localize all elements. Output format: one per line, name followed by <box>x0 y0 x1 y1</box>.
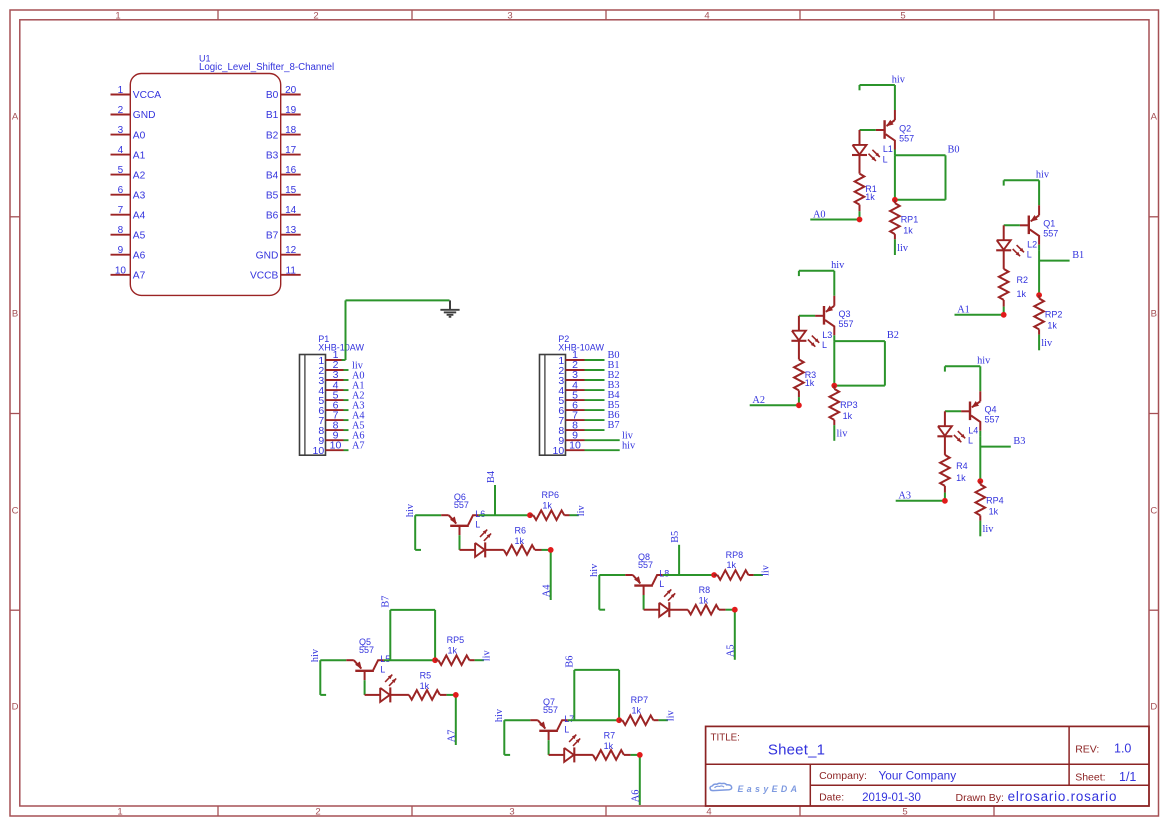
svg-text:4: 4 <box>706 807 711 818</box>
svg-text:hiv: hiv <box>1036 170 1050 181</box>
wire base of Q7 <box>548 740 550 755</box>
svg-text:10: 10 <box>569 439 581 451</box>
P2 pin 2 <box>558 359 604 377</box>
transistor Q8 PNP 557 <box>625 552 663 595</box>
svg-text:4: 4 <box>118 145 124 156</box>
svg-text:L: L <box>380 664 385 674</box>
P2 pin 5 <box>558 389 604 407</box>
svg-text:L1: L1 <box>883 144 893 154</box>
U1 pin 16 B4 <box>266 165 301 181</box>
svg-text:L3: L3 <box>822 330 832 340</box>
net flag liv (RP1) <box>895 239 909 255</box>
U1 pin 2 GND <box>111 105 156 121</box>
U1 pin 17 B3 <box>266 145 301 161</box>
svg-text:B4: B4 <box>486 471 497 483</box>
svg-text:Q4: Q4 <box>985 405 997 415</box>
wire P1 pin1 to ground <box>346 300 450 360</box>
wire net B3 <box>980 437 1011 482</box>
svg-text:GND: GND <box>133 110 156 121</box>
LED L8 <box>644 569 676 618</box>
P1 pin 5 <box>318 389 348 407</box>
transistor Q1 PNP 557 <box>1020 205 1058 245</box>
net label B2 <box>887 330 899 341</box>
svg-text:1k: 1k <box>727 560 737 570</box>
svg-text:2: 2 <box>313 10 318 21</box>
svg-text:GND: GND <box>256 250 279 261</box>
resistor R5 1k <box>390 670 446 699</box>
junction node A5 <box>732 607 738 613</box>
wire Q2 collector <box>894 150 896 156</box>
svg-text:15: 15 <box>285 185 297 196</box>
svg-text:A3: A3 <box>133 190 146 201</box>
svg-text:B7: B7 <box>380 596 391 608</box>
resistor R4 1k <box>940 436 968 492</box>
net label hiv (P2 pin 10) <box>622 440 636 451</box>
P2 pin 6 <box>558 399 604 417</box>
svg-text:B4: B4 <box>266 170 279 181</box>
transistor Q4 PNP 557 <box>961 391 999 431</box>
svg-text:L4: L4 <box>968 425 978 435</box>
junction node A0 <box>857 217 863 223</box>
svg-text:RP7: RP7 <box>631 695 649 705</box>
svg-text:R2: R2 <box>1017 275 1029 285</box>
wire base of Q6 <box>459 535 461 550</box>
net label A0 (P1 pin 3) <box>352 370 365 381</box>
svg-text:B2: B2 <box>266 130 279 141</box>
net label A7 <box>447 730 458 743</box>
wire Q7 emitter <box>504 719 530 721</box>
svg-text:D: D <box>1150 702 1157 713</box>
svg-text:elrosario.rosario: elrosario.rosario <box>1008 789 1118 804</box>
svg-text:L6: L6 <box>475 509 485 519</box>
svg-text:2: 2 <box>315 807 320 818</box>
rev cell <box>1075 742 1131 756</box>
svg-text:1k: 1k <box>448 645 458 655</box>
wire net B1 <box>1039 251 1070 296</box>
svg-text:B5: B5 <box>266 190 279 201</box>
svg-text:liv: liv <box>760 564 771 576</box>
svg-text:Your Company: Your Company <box>879 769 957 783</box>
net label B2 (P2 pin 3) <box>608 370 620 381</box>
U1 pin 15 B5 <box>266 185 301 201</box>
net flag liv (RP6) <box>570 504 588 516</box>
junction node A4 <box>548 547 554 553</box>
svg-text:8: 8 <box>118 225 124 236</box>
svg-text:5: 5 <box>902 807 907 818</box>
wire Q5 emitter <box>320 659 346 661</box>
resistor RP7 1k <box>619 695 659 725</box>
U1 pin 4 A1 <box>111 145 146 161</box>
svg-text:Logic_Level_Shifter_8-Channel: Logic_Level_Shifter_8-Channel <box>199 62 334 73</box>
svg-text:A1: A1 <box>957 305 970 316</box>
svg-text:EasyEDA: EasyEDA <box>738 784 801 794</box>
P2 pin 7 <box>558 409 604 427</box>
title block <box>706 726 1149 806</box>
svg-text:REV:: REV: <box>1075 744 1099 756</box>
U1 pin 11 VCCB <box>250 265 301 281</box>
wire Q4 collector <box>979 431 981 437</box>
P2 pin 4 <box>558 379 604 397</box>
LED L6 <box>460 509 492 558</box>
resistor R7 1k <box>574 730 630 759</box>
svg-text:A7: A7 <box>133 271 146 282</box>
net label A4 (P1 pin 7) <box>352 410 365 421</box>
resistor R8 1k <box>669 585 725 614</box>
net label liv (P1 pin 2) <box>352 360 364 371</box>
P2 pin 10 <box>553 439 620 457</box>
wire net A7 <box>447 695 456 745</box>
junction node B0/RP1 <box>892 197 898 203</box>
svg-text:liv: liv <box>837 429 849 440</box>
net flag hiv (Q2 emitter supply) <box>860 74 906 90</box>
wire Q8 emitter <box>599 574 625 576</box>
svg-text:C: C <box>1150 506 1157 517</box>
P2 pin 8 <box>558 419 604 437</box>
svg-text:Q2: Q2 <box>899 123 911 133</box>
wire net A0 <box>810 211 859 219</box>
svg-text:hiv: hiv <box>494 708 505 722</box>
company row <box>819 769 956 783</box>
svg-text:L8: L8 <box>659 569 669 579</box>
svg-text:B: B <box>1151 309 1157 320</box>
svg-text:557: 557 <box>899 133 914 143</box>
net label A6 (P1 pin 9) <box>352 431 365 442</box>
svg-text:557: 557 <box>638 560 653 570</box>
U1 pin 18 B2 <box>266 125 301 141</box>
svg-text:VCCB: VCCB <box>250 271 279 282</box>
wire net A6 <box>631 755 640 805</box>
svg-text:B6: B6 <box>266 210 279 221</box>
connector P2 XHB-10AW <box>540 334 605 455</box>
title text Sheet_1 <box>711 733 826 759</box>
svg-text:1k: 1k <box>805 378 815 388</box>
svg-text:17: 17 <box>285 145 297 156</box>
svg-text:10: 10 <box>115 265 127 276</box>
svg-text:A7: A7 <box>352 441 365 452</box>
svg-text:L: L <box>564 724 569 734</box>
svg-text:Company:: Company: <box>819 770 867 782</box>
svg-text:L: L <box>1027 250 1032 260</box>
wire Q8 collector to RP8 <box>663 574 714 576</box>
svg-text:19: 19 <box>285 105 297 116</box>
net label B1 <box>1072 250 1084 261</box>
svg-text:B7: B7 <box>266 230 279 241</box>
svg-text:R4: R4 <box>956 461 968 471</box>
svg-text:11: 11 <box>286 265 297 276</box>
svg-text:C: C <box>12 506 19 517</box>
U1 pin 12 GND <box>256 245 301 261</box>
svg-text:Drawn By:: Drawn By: <box>956 792 1004 804</box>
junction node B4/RP6 <box>527 512 533 518</box>
net label A0 <box>813 209 826 220</box>
wire net B5 <box>678 545 680 575</box>
svg-text:A7: A7 <box>447 730 458 743</box>
svg-text:B6: B6 <box>564 656 575 668</box>
net label B3 (P2 pin 4) <box>608 380 620 391</box>
wire Q7 collector to RP7 <box>568 719 619 721</box>
LED L1 <box>852 130 893 164</box>
transistor Q3 PNP 557 <box>815 296 853 336</box>
svg-text:L7: L7 <box>564 714 574 724</box>
wire Q6 emitter <box>415 514 441 516</box>
svg-text:557: 557 <box>543 705 558 715</box>
svg-text:hiv: hiv <box>892 74 906 85</box>
junction node B6/RP7 <box>616 717 622 723</box>
junction node A1 <box>1001 312 1007 318</box>
svg-text:1k: 1k <box>542 500 552 510</box>
wire base of Q8 <box>643 595 645 610</box>
net flag liv (RP3) <box>834 425 848 441</box>
P1 pin 4 <box>318 379 348 397</box>
svg-text:A5: A5 <box>133 230 146 241</box>
svg-text:1k: 1k <box>1017 289 1027 299</box>
net label A1 (P1 pin 4) <box>352 380 365 391</box>
svg-text:1k: 1k <box>604 741 614 751</box>
P1 pin 2 <box>318 359 348 377</box>
svg-text:557: 557 <box>985 415 1000 425</box>
svg-text:1k: 1k <box>515 536 525 546</box>
net label A5 <box>726 644 737 657</box>
junction node A6 <box>637 752 643 758</box>
svg-text:3: 3 <box>118 125 124 136</box>
net label A2 <box>752 395 765 406</box>
U1 pin 13 B7 <box>266 225 301 241</box>
junction node A7 <box>453 692 459 698</box>
svg-text:3: 3 <box>507 10 512 21</box>
transistor Q7 PNP 557 <box>530 697 568 740</box>
svg-text:RP4: RP4 <box>986 496 1004 506</box>
wire Q3 emitter <box>833 271 835 296</box>
svg-text:liv: liv <box>983 524 995 535</box>
net label B4 <box>486 471 497 483</box>
svg-text:RP2: RP2 <box>1045 310 1063 320</box>
U1 pin 5 A2 <box>111 165 146 181</box>
U1 pin 10 A7 <box>111 265 146 281</box>
P1 pin 10 <box>313 439 349 457</box>
ground symbol GND <box>440 300 459 316</box>
wire base of Q3 <box>799 315 815 317</box>
svg-text:1/1: 1/1 <box>1119 770 1136 784</box>
svg-text:R7: R7 <box>604 730 616 740</box>
net label B7 (P2 pin 8) <box>608 420 620 431</box>
svg-text:B1: B1 <box>1072 250 1084 261</box>
U1 pin 7 A4 <box>111 205 146 221</box>
net label B0 <box>948 144 960 155</box>
resistor RP4 1k <box>976 481 1004 520</box>
svg-text:A6: A6 <box>631 790 642 803</box>
net label liv (P2 pin 9) <box>622 430 634 441</box>
svg-text:A2: A2 <box>752 395 765 406</box>
junction node B1/RP2 <box>1036 292 1042 298</box>
U1 pin 1 VCCA <box>111 85 162 101</box>
resistor RP2 1k <box>1034 295 1062 335</box>
net label B0 (P2 pin 1) <box>608 350 620 361</box>
svg-text:hiv: hiv <box>622 440 636 451</box>
transistor Q6 PNP 557 <box>441 492 479 535</box>
wire base of Q1 <box>1004 224 1020 226</box>
svg-text:L: L <box>968 436 973 446</box>
wire net B0 loop <box>895 155 946 200</box>
svg-text:1k: 1k <box>903 225 913 235</box>
transistor Q5 PNP 557 <box>346 637 384 680</box>
svg-text:6: 6 <box>118 185 124 196</box>
net flag liv (RP5) <box>475 649 493 661</box>
net flag hiv (Q6 emitter supply) <box>405 503 421 550</box>
junction node A3 <box>942 498 948 504</box>
net label A4 <box>541 585 552 598</box>
svg-text:B: B <box>12 309 18 320</box>
svg-text:557: 557 <box>839 319 854 329</box>
svg-text:1k: 1k <box>420 681 430 691</box>
net flag hiv (Q5 emitter supply) <box>310 648 326 695</box>
svg-text:12: 12 <box>285 245 297 256</box>
LED L2 <box>996 225 1037 259</box>
net label A7 (P1 pin 10) <box>352 441 365 452</box>
svg-text:TITLE:: TITLE: <box>711 733 740 744</box>
svg-text:A0: A0 <box>813 209 826 220</box>
svg-text:1: 1 <box>118 85 124 96</box>
P1 pin 9 <box>318 429 348 447</box>
svg-text:557: 557 <box>1043 229 1058 239</box>
net label A3 <box>898 491 911 502</box>
svg-text:RP6: RP6 <box>542 490 560 500</box>
svg-text:2019-01-30: 2019-01-30 <box>862 792 921 804</box>
U1 pin 3 A0 <box>111 125 146 141</box>
svg-text:10: 10 <box>313 445 325 457</box>
P1 pin 6 <box>318 399 348 417</box>
sheet cell <box>1075 770 1136 784</box>
svg-text:L: L <box>659 579 664 589</box>
svg-text:A4: A4 <box>133 210 146 221</box>
wire net A1 <box>955 307 1004 315</box>
svg-text:16: 16 <box>285 165 297 176</box>
net label B4 (P2 pin 5) <box>608 390 620 401</box>
svg-text:liv: liv <box>576 504 587 516</box>
svg-text:1: 1 <box>117 807 122 818</box>
svg-text:A5: A5 <box>726 644 737 657</box>
net label B5 <box>670 531 681 543</box>
svg-text:liv: liv <box>1041 338 1053 349</box>
svg-text:L5: L5 <box>380 654 390 664</box>
net flag liv (RP8) <box>754 564 772 576</box>
svg-text:Q3: Q3 <box>839 309 851 319</box>
resistor RP8 1k <box>714 550 754 580</box>
net label B1 (P2 pin 2) <box>608 360 620 371</box>
svg-text:2: 2 <box>118 105 124 116</box>
resistor R3 1k <box>794 341 816 397</box>
P2 pin 9 <box>558 429 619 447</box>
svg-text:13: 13 <box>285 225 297 236</box>
svg-text:XHB-10AW: XHB-10AW <box>318 342 364 352</box>
P1 pin 7 <box>318 409 348 427</box>
svg-text:hiv: hiv <box>831 260 845 271</box>
svg-text:liv: liv <box>481 649 492 661</box>
svg-text:1k: 1k <box>699 596 709 606</box>
svg-text:A: A <box>12 112 19 123</box>
svg-text:RP1: RP1 <box>901 214 919 224</box>
wire Q1 emitter <box>1038 180 1040 205</box>
wire net A4 <box>542 550 551 600</box>
svg-text:9: 9 <box>118 245 124 256</box>
svg-text:1k: 1k <box>843 411 853 421</box>
svg-text:VCCA: VCCA <box>133 90 162 101</box>
junction node B2/RP3 <box>831 383 837 389</box>
svg-text:7: 7 <box>118 205 124 216</box>
resistor R2 1k <box>999 250 1028 306</box>
transistor Q2 PNP 557 <box>876 110 914 150</box>
wire Q2 emitter <box>894 85 896 110</box>
svg-text:L: L <box>883 154 888 164</box>
svg-text:hiv: hiv <box>310 648 321 662</box>
svg-text:A: A <box>1151 112 1158 123</box>
svg-text:1k: 1k <box>632 705 642 715</box>
net label A6 <box>631 790 642 803</box>
wire net A5 <box>726 610 735 660</box>
wire Q6 collector to RP6 <box>479 514 530 516</box>
svg-text:18: 18 <box>285 125 297 136</box>
svg-text:L: L <box>475 519 480 529</box>
junction node A2 <box>796 402 802 408</box>
wire base of Q2 <box>860 129 876 131</box>
LED L3 <box>791 316 832 350</box>
svg-text:R6: R6 <box>515 525 527 535</box>
svg-text:5: 5 <box>118 165 124 176</box>
EasyEDA logo <box>710 783 800 794</box>
svg-text:Date:: Date: <box>819 792 844 804</box>
svg-text:3: 3 <box>509 807 514 818</box>
svg-text:L2: L2 <box>1027 239 1037 249</box>
net label A3 (P1 pin 6) <box>352 400 365 411</box>
svg-text:A0: A0 <box>133 130 146 141</box>
svg-text:1: 1 <box>115 10 120 21</box>
svg-text:557: 557 <box>359 645 374 655</box>
date row <box>819 789 1117 804</box>
U1 pin 14 B6 <box>266 205 301 221</box>
svg-text:R8: R8 <box>699 585 711 595</box>
svg-text:RP8: RP8 <box>726 550 744 560</box>
svg-text:1k: 1k <box>956 473 966 483</box>
svg-text:R5: R5 <box>420 670 432 680</box>
svg-text:XHB-10AW: XHB-10AW <box>558 342 604 352</box>
svg-text:A3: A3 <box>898 491 911 502</box>
svg-text:RP3: RP3 <box>840 400 858 410</box>
P2 pin 3 <box>558 369 604 387</box>
net label A2 (P1 pin 5) <box>352 390 365 401</box>
LED L4 <box>937 411 978 445</box>
svg-text:1k: 1k <box>865 192 875 202</box>
connector P1 XHB-10AW <box>300 334 365 455</box>
svg-text:A4: A4 <box>541 585 552 598</box>
U1 pin 19 B1 <box>266 105 301 121</box>
svg-text:B2: B2 <box>887 330 899 341</box>
svg-text:4: 4 <box>704 10 709 21</box>
net flag hiv (Q4 emitter supply) <box>945 356 991 372</box>
svg-text:B3: B3 <box>1013 436 1025 447</box>
svg-text:B1: B1 <box>266 110 279 121</box>
svg-text:14: 14 <box>285 205 297 216</box>
svg-text:20: 20 <box>285 85 297 96</box>
svg-text:hiv: hiv <box>405 503 416 517</box>
svg-text:5: 5 <box>900 10 905 21</box>
junction node B5/RP8 <box>711 572 717 578</box>
wire net A2 <box>750 397 799 405</box>
svg-text:B7: B7 <box>608 420 620 431</box>
U1 pin 20 B0 <box>266 85 301 101</box>
wire net B2 loop <box>834 341 885 386</box>
svg-text:Sheet:: Sheet: <box>1075 771 1105 783</box>
svg-text:B3: B3 <box>266 150 279 161</box>
resistor RP3 1k <box>830 386 858 426</box>
